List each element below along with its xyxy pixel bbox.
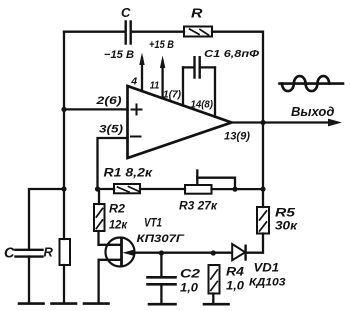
svg-text:R5: R5 (275, 208, 296, 220)
ground under R4 (204, 303, 229, 306)
resistor R4 (209, 265, 220, 294)
capacitor C2 (148, 277, 176, 284)
ground under source (84, 302, 109, 305)
svg-text:12к: 12к (109, 220, 128, 232)
wire gate net (131, 252, 231, 254)
svg-text:R3 27к: R3 27к (179, 201, 218, 213)
svg-text:R2: R2 (109, 204, 126, 216)
wire op-amp output (232, 121, 264, 123)
svg-text:+15 В: +15 В (149, 39, 174, 51)
capacitor C1 bracket wires (183, 66, 215, 68)
wire right vertical to R5 (262, 123, 264, 208)
capacitor C1 plates (195, 57, 200, 77)
op-amp U1 triangle (128, 86, 232, 158)
ground under C (19, 302, 44, 305)
svg-text:3(5): 3(5) (99, 124, 123, 136)
svg-text:C: C (4, 246, 15, 262)
svg-text:C1 6,8пФ: C1 6,8пФ (204, 48, 260, 60)
node feedback right junction (260, 187, 265, 192)
R3 wiper tap (197, 171, 235, 189)
wire C2 lead (160, 253, 162, 276)
capacitor C (top Wien series C) (126, 22, 131, 44)
wire R to right corner (212, 32, 263, 122)
wire R4 to ground (212, 294, 214, 304)
svg-text:1,0: 1,0 (226, 281, 245, 293)
node junction inverting net (95, 186, 100, 191)
node C2 junction (159, 250, 164, 255)
svg-text:R1 8,2к: R1 8,2к (104, 168, 154, 180)
pin 11 power arrow (160, 56, 165, 99)
svg-text:30к: 30к (275, 221, 298, 233)
output arrow wire (263, 121, 330, 123)
node junction + input (61, 107, 66, 112)
diode VD1 (232, 244, 245, 260)
svg-text:R: R (191, 6, 203, 21)
wire R to ground (63, 265, 65, 303)
pin 4 power arrow (139, 53, 144, 92)
resistor R (bottom left parallel) (60, 239, 71, 265)
svg-text:КД103: КД103 (249, 277, 286, 289)
svg-text:VT1: VT1 (144, 218, 162, 230)
svg-text:13(9): 13(9) (224, 131, 250, 143)
svg-text:C: C (121, 5, 131, 20)
wire inverting feedback horizontal (98, 188, 115, 190)
svg-text:1,0: 1,0 (180, 283, 199, 295)
output arrowhead (328, 119, 342, 127)
resistor R1 (114, 184, 140, 193)
resistor R3 trimmer body (185, 185, 212, 194)
resistor R2 (94, 204, 105, 231)
left vertical wire (Wien node) (63, 32, 65, 239)
node junction left RC branch (61, 186, 66, 191)
svg-text:1(7): 1(7) (163, 89, 181, 101)
svg-text:R4: R4 (226, 267, 245, 279)
svg-text:КП307Г: КП307Г (137, 233, 186, 245)
svg-text:2(6): 2(6) (95, 95, 122, 107)
resistor R (top Wien series R) (184, 27, 212, 37)
wire between C and R top (132, 31, 184, 33)
svg-text:4: 4 (130, 76, 137, 88)
VT1 channel line (120, 240, 123, 266)
wire non-inverting input (64, 108, 128, 110)
transistor VT1 circle (106, 238, 135, 267)
wire R1 to R3 (140, 188, 185, 190)
op-amp plus sign (132, 105, 142, 115)
svg-text:Выход: Выход (291, 104, 334, 119)
op-amp minus sign (131, 136, 141, 138)
wire C to ground (28, 257, 30, 303)
VT1 gate arrowhead (123, 250, 134, 256)
resistor R5 (257, 207, 269, 234)
svg-text:R: R (44, 245, 54, 260)
node wiper junction (232, 187, 237, 192)
svg-text:VD1: VD1 (254, 263, 280, 275)
wire R5 to diode (246, 234, 263, 253)
svg-text:14(8): 14(8) (191, 99, 214, 111)
ground under R (52, 302, 77, 305)
wire inverting input (98, 138, 128, 189)
capacitor C (bottom left parallel) (16, 250, 43, 257)
node output junction (260, 120, 265, 125)
ground under C2 (149, 303, 176, 306)
wire top feedback left segment (64, 31, 125, 33)
wire C2 to ground (160, 284, 162, 303)
svg-text:C2: C2 (180, 269, 201, 281)
node R4 junction (211, 250, 216, 255)
pin 14(8) stub (214, 67, 216, 116)
VT1 source wire (99, 260, 122, 303)
svg-text:−15 В: −15 В (104, 49, 134, 61)
svg-text:11: 11 (150, 80, 160, 92)
sine wave symbol (280, 76, 344, 91)
wire R3 to right vertical (212, 188, 264, 190)
pin 1(7) stub (182, 67, 184, 105)
wire to parallel C branch (29, 189, 64, 249)
wire R2 to transistor drain (99, 189, 122, 245)
